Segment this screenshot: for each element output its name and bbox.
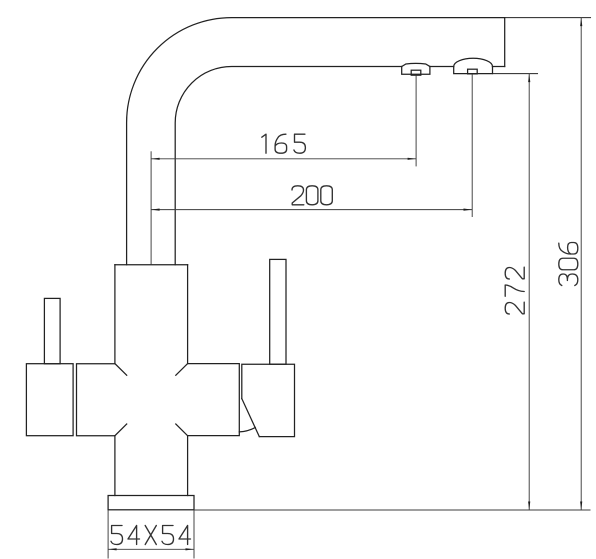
spout underside segment between aerators [430,66,454,68]
right block swing arc [239,428,255,432]
chamfer tick bottom-left [115,424,127,436]
extension line aerator face [493,73,538,75]
chamfer tick top-left [115,364,127,376]
spout inner profile [175,67,402,265]
left valve block [26,364,73,436]
extension line base left [107,510,109,559]
chamfer tick bottom-right [176,424,188,436]
dim text 54X54 [111,526,191,545]
spout outer profile [127,18,505,265]
extension line aerator A2 [471,74,473,217]
dimension line 54x54 [108,548,194,550]
arrow 54 right [186,548,195,550]
dimension line 200 [151,209,472,211]
dim text 272 [505,267,524,314]
body top line [115,264,188,266]
dimension line 165 [151,158,416,160]
base flange [108,496,194,510]
body right edge lower [187,436,189,496]
extension line aerator A1 [415,75,417,166]
aerator A2 body [454,67,493,74]
dimension line 272 [528,74,530,510]
right block diagonal [242,399,259,437]
dim text 306 [559,243,578,286]
aerator A1 cap [402,63,430,66]
right arm [188,364,240,436]
left arm [77,364,115,436]
deck reference line [194,509,591,511]
right lever [270,259,286,364]
dim text 165 [262,134,306,153]
aerator A2 nozzle [468,69,478,74]
dim text 200 [292,186,332,205]
extension line base right [193,510,195,559]
arrow 272 top [528,74,530,83]
left lever [44,298,60,363]
arrow 200 right [464,209,473,211]
body left edge upper [114,265,116,364]
aerator A1 nozzle [411,70,421,75]
aerator A2 dome [454,58,493,66]
body right edge upper [187,265,189,364]
arrow 306 bottom [580,502,582,511]
spout underside segment right of aerator 2 [493,66,505,68]
body left edge lower [114,436,116,496]
aerator A1 body [402,67,430,75]
chamfer tick top-right [176,364,188,376]
arrow 54 left [108,548,117,550]
arrow 306 top [580,18,582,27]
extension line pipe centerline [150,151,152,264]
extension line spout top [505,17,591,19]
arrow 165 left [151,158,160,160]
arrow 272 bottom [528,502,530,511]
right valve block [242,364,295,436]
arrow 165 right [408,158,417,160]
arrow 200 left [151,209,160,211]
dimension line 306 [580,18,582,510]
